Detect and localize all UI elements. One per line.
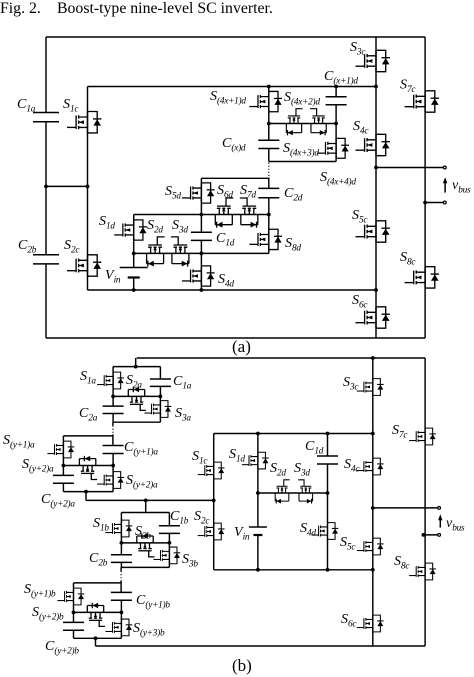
svg-text:S4d: S4d [300, 521, 316, 539]
terminal vbus- [443, 201, 446, 204]
capacitor C1b [159, 526, 180, 534]
wire acell out solid [112, 422, 114, 425]
wire ya mid y=465.5 [63, 465, 113, 467]
capacitor C1d [191, 232, 212, 240]
wire outer box bottom [46, 337, 425, 339]
node dots figure b [371, 356, 375, 360]
wire vbus- tap [425, 202, 445, 204]
svg-text:S(4x+3)d: S(4x+3)d [283, 141, 319, 159]
svg-text:S3d: S3d [172, 218, 188, 236]
svg-text:C2d: C2d [284, 186, 303, 204]
capacitor C(y+1)a [103, 446, 124, 454]
transistor S4d [312, 523, 339, 540]
wire bcell mid y=542.9 [121, 542, 169, 544]
svg-text:S7c: S7c [400, 78, 416, 96]
svg-text:S(y+2)b: S(y+2)b [32, 605, 64, 623]
transistor S2a [128, 387, 146, 411]
svg-text:S4c: S4c [353, 119, 369, 137]
wire mid chain x=376 [375, 37, 377, 338]
transistor S6c [356, 307, 390, 328]
wire row y=214.5 [134, 214, 269, 216]
svg-text:C(y+2)b: C(y+2)b [45, 639, 79, 657]
capacitor C1d [317, 456, 338, 464]
svg-text:S4c: S4c [344, 457, 360, 475]
wire feed row y=500.4 [86, 499, 214, 501]
transistor S7c [409, 428, 436, 445]
transistor S1c [67, 112, 101, 133]
svg-text:S8c: S8c [394, 554, 410, 572]
transistor S(y+1)b [58, 588, 85, 605]
arrow vbus [439, 520, 441, 528]
svg-text:S6c: S6c [341, 612, 357, 630]
wire row y=253.4 [134, 252, 269, 254]
svg-text:S4d: S4d [218, 272, 234, 290]
transistor S(4x+2)d right [310, 109, 326, 136]
wire dotted link b->yb [120, 571, 122, 581]
wire C1d/S4d branch x=327.5 [327, 434, 329, 570]
svg-text:S5c: S5c [340, 535, 356, 553]
svg-text:S2d: S2d [270, 461, 286, 479]
transistor S1a [97, 372, 124, 389]
svg-text:S(y+1)a: S(y+1)a [3, 433, 35, 451]
wire midrow top y=178.3 [201, 178, 268, 189]
svg-text:S(4x+2)d: S(4x+2)d [284, 90, 320, 108]
transistor S(4x+1)d [249, 91, 282, 111]
transistor S5d [182, 183, 215, 203]
svg-text:S8c: S8c [400, 250, 416, 268]
svg-text:S2b: S2b [135, 524, 151, 542]
transistor S(4x+3)d [317, 138, 349, 158]
wire dotted link a->ya [112, 426, 114, 435]
battery Vin [120, 267, 148, 269]
svg-text:C1a: C1a [173, 374, 192, 392]
transistor S5c [356, 221, 390, 242]
transistor S2b [137, 533, 155, 557]
svg-text:C(x+1)d: C(x+1)d [324, 69, 358, 87]
wire yb bottom y=638.3 [74, 637, 122, 639]
transistor S2d [147, 237, 165, 267]
arrow vbus [444, 183, 446, 193]
svg-text:S1a: S1a [80, 369, 96, 387]
transistor S(y+2)b [87, 603, 105, 627]
transistor S8c [409, 563, 436, 580]
wire right outer chain x=425 [424, 37, 426, 338]
transistor S1d [114, 220, 147, 240]
wire inner box left edge [87, 87, 89, 291]
svg-text:S1d: S1d [229, 447, 245, 465]
svg-text:S7c: S7c [392, 423, 408, 441]
svg-text:S2a: S2a [126, 373, 142, 391]
wire bcell top y=512.5 [121, 512, 169, 514]
wire yb right x=121.4 [120, 581, 122, 638]
transistor S1b [105, 520, 132, 537]
capacitor C2b [33, 255, 59, 264]
wire vbus+ tap [373, 507, 439, 509]
svg-text:S8d: S8d [285, 236, 301, 254]
transistor S6d [215, 198, 233, 228]
svg-text:S6d: S6d [217, 183, 233, 201]
transistor S3b [153, 547, 180, 564]
transistor S(y+3)b [105, 619, 132, 636]
transistor S(y+2)a [79, 456, 97, 480]
terminal vbus+ [443, 166, 446, 169]
capacitor C(x)d [258, 140, 279, 148]
capacitor C2b [111, 555, 132, 563]
svg-text:C1b: C1b [170, 509, 189, 527]
svg-text:S7d: S7d [240, 183, 256, 201]
svg-text:C2b: C2b [18, 238, 37, 256]
wire yb left x=73.5 [73, 583, 75, 638]
wire ya out drop [85, 492, 87, 501]
transistor S8c [405, 267, 439, 288]
capacitor C(y+2)a [53, 475, 74, 483]
svg-text:S(y+2)a: S(y+2)a [22, 457, 54, 475]
wire ya top y=435.9 [63, 435, 113, 437]
wire yb out drop [95, 638, 97, 646]
svg-text:vbus: vbus [452, 178, 471, 196]
battery Vin [249, 526, 267, 528]
svg-text:(a): (a) [232, 337, 251, 356]
wire yb mid y=612.4 [74, 611, 122, 613]
transistor S2c [198, 523, 225, 540]
transistor S2d [275, 480, 289, 504]
svg-text:S(4x+4)d: S(4x+4)d [320, 170, 356, 188]
svg-text:S5c: S5c [352, 208, 368, 226]
svg-text:S(y+2)a: S(y+2)a [126, 473, 158, 491]
transistor S6c [357, 615, 384, 632]
transistor S(y+1)a [47, 441, 74, 458]
svg-text:S(y+1)b: S(y+1)b [24, 582, 56, 600]
terminal vbus- [438, 534, 441, 537]
capacitor C(y+2)b [63, 622, 84, 630]
svg-text:S3d: S3d [294, 461, 310, 479]
wire dotted link x=268.8 [268, 163, 270, 178]
svg-text:(b): (b) [232, 656, 252, 675]
transistor S3d [171, 237, 189, 267]
capacitor C2a [103, 406, 124, 413]
wire S1d branch x=257.9 [257, 434, 259, 570]
wire vbus- tap [423, 534, 439, 536]
svg-text:Fig. 2.: Fig. 2. [0, 0, 41, 17]
svg-text:S3a: S3a [175, 406, 191, 424]
svg-text:S2c: S2c [64, 238, 80, 256]
svg-text:Boost-type nine-level SC inver: Boost-type nine-level SC inverter. [57, 0, 273, 17]
transistor S1d [242, 452, 269, 469]
wire bcell input drop [145, 500, 147, 512]
wire ya left x=63.4 [62, 436, 64, 492]
wire acell top y=366.6 [113, 366, 160, 368]
svg-text:vbus: vbus [446, 516, 465, 534]
wire inner top [214, 433, 373, 435]
svg-text:C1d: C1d [216, 231, 235, 249]
svg-text:S(4x+1)d: S(4x+1)d [210, 89, 246, 107]
wire cell vertical x=268.8 upper [268, 87, 270, 162]
terminal vbus+ [438, 507, 441, 510]
svg-text:S3c: S3c [343, 375, 359, 393]
svg-text:S1b: S1b [93, 516, 109, 534]
svg-text:S6c: S6c [352, 293, 368, 311]
svg-text:S3c: S3c [350, 40, 366, 58]
svg-text:Vin: Vin [105, 268, 121, 286]
svg-text:C2a: C2a [79, 406, 98, 424]
wire x=268.8 below C2d [268, 198, 270, 254]
transistor S(y+3)a [97, 472, 124, 489]
transistor S2c [67, 255, 101, 276]
wire pair line y=123.5 [269, 123, 336, 125]
wire cell bottom y=161.5 [269, 161, 336, 163]
capacitor C2d [258, 188, 279, 197]
svg-text:C(y+2)a: C(y+2)a [41, 492, 75, 510]
svg-text:S1c: S1c [192, 449, 208, 467]
svg-text:C2b: C2b [89, 551, 108, 569]
transistor S5c [357, 538, 384, 555]
capacitor C1a [33, 113, 59, 122]
wire acell input drop [135, 358, 137, 367]
wire ya right x=113.1 [112, 434, 114, 491]
transistor S3c [356, 50, 390, 71]
svg-text:S1d: S1d [99, 214, 115, 232]
transistor S4c [357, 458, 384, 475]
capacitor C(y+1)b [111, 592, 132, 600]
wire acell bottom y=422.2 [113, 421, 160, 423]
transistor S4d [182, 266, 215, 286]
transistor S3c [357, 379, 384, 396]
wire acell right x=160.4 [159, 367, 161, 423]
wire yb top y=582.9 [74, 582, 122, 584]
wire ya bottom y=491.6 [63, 491, 113, 493]
wire cap tap y=186.4 [46, 185, 88, 187]
wire inner bottom [214, 569, 373, 571]
wire bcell left x=121.4 [120, 513, 122, 568]
node dots figure a [44, 185, 48, 189]
svg-text:S2c: S2c [194, 509, 210, 527]
transistor S7c [405, 91, 439, 112]
svg-text:S1c: S1c [63, 97, 79, 115]
wire inner left x=213.7 [213, 434, 215, 570]
wire bcell out solid [120, 567, 122, 571]
svg-text:S(y+3)b: S(y+3)b [133, 621, 165, 639]
transistor S4c [356, 134, 390, 155]
wire x=133.7 S1d/Vin [133, 215, 135, 291]
transistor S1c [198, 462, 225, 479]
capacitor C1a [150, 379, 171, 386]
transistor S7d [240, 198, 258, 228]
svg-text:C1d: C1d [305, 439, 324, 457]
capacitor C(x+1)d [326, 97, 347, 105]
svg-text:C(y+1)a: C(y+1)a [124, 440, 158, 458]
transistor S8d [249, 229, 282, 249]
wire inner box bottom edge [88, 289, 377, 291]
wire bcell bottom y=567.4 [121, 566, 169, 568]
svg-text:C(y+1)b: C(y+1)b [136, 593, 170, 611]
wire acell mid y=396.4 [113, 395, 160, 397]
transistor S3d [298, 480, 312, 504]
svg-text:S2d: S2d [147, 218, 163, 236]
wire chain x=372.8 [372, 358, 374, 646]
wire outer top [137, 357, 425, 359]
transistor S(4x+2)d left [286, 109, 302, 136]
svg-text:C(x)d: C(x)d [222, 136, 246, 154]
wire bcell right x=169.4 [168, 513, 170, 568]
svg-text:C1a: C1a [17, 97, 36, 115]
wire pair row y=493 [258, 492, 328, 494]
wire outer bottom [96, 645, 426, 647]
svg-text:S3b: S3b [182, 552, 198, 570]
transistor S3a [144, 401, 171, 418]
wire outer right [424, 358, 426, 646]
wire x=201.4 S5d/C1d/S4d [200, 178, 202, 290]
svg-text:Vin: Vin [234, 525, 250, 543]
wire left rail with C1a C2b gaps [45, 37, 47, 338]
wire acell left x=113.1 [112, 367, 114, 423]
svg-text:S5d: S5d [165, 184, 181, 202]
wire x=336.1 C(x+1)d segs [335, 87, 337, 162]
wire vbus+ tap [376, 167, 445, 169]
wire inner box top edge [88, 86, 377, 88]
wire outer box top [46, 36, 425, 38]
